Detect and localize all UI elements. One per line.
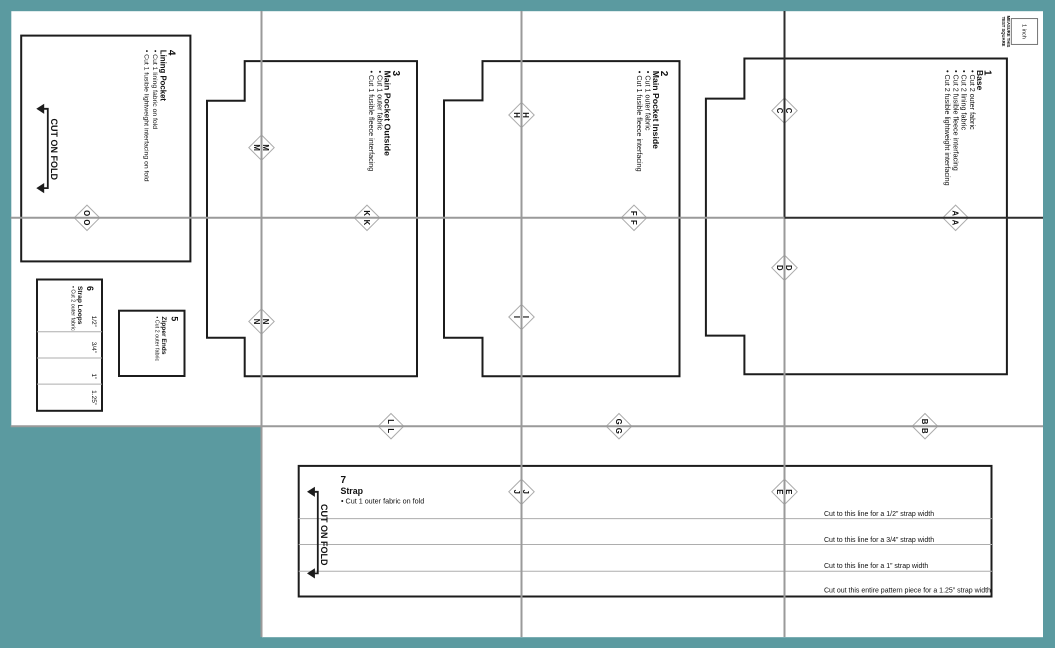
svg-text:• Cut 1 fusible lightweight in: • Cut 1 fusible lightweight interfacing … — [143, 50, 150, 182]
piece 4 cut-on-fold bracket — [44, 109, 48, 188]
diamond letters L — [386, 419, 395, 424]
svg-text:7: 7 — [341, 475, 347, 486]
svg-text:3/4”: 3/4” — [90, 342, 97, 353]
svg-text:O: O — [82, 210, 91, 216]
piece 6 text — [69, 286, 95, 331]
svg-text:L: L — [386, 428, 395, 433]
svg-text:C: C — [775, 108, 784, 114]
svg-text:G: G — [614, 428, 623, 434]
white sheet right — [262, 11, 1043, 637]
svg-text:A: A — [951, 220, 960, 226]
diamond letters B — [920, 419, 929, 425]
diamond letters G — [614, 419, 623, 425]
svg-text:TEST SQUARE: TEST SQUARE — [1001, 17, 1006, 47]
piece 2 text — [635, 71, 669, 172]
diamond letters C — [775, 108, 784, 114]
piece 3 text — [367, 71, 401, 172]
diamond O — [74, 205, 99, 230]
svg-text:1 inch: 1 inch — [1021, 24, 1027, 39]
svg-text:F: F — [629, 220, 638, 225]
svg-text:CUT ON FOLD: CUT ON FOLD — [319, 504, 329, 566]
svg-text:• Cut 2 fusible lightweight in: • Cut 2 fusible lightweight interfacing — [943, 70, 952, 186]
svg-text:• Cut 2 outer fabric: • Cut 2 outer fabric — [69, 286, 75, 331]
svg-text:J: J — [521, 490, 530, 494]
page boundary vertical line 2 — [521, 11, 523, 637]
page boundary vertical line 3 gray part — [784, 218, 786, 637]
svg-text:• Cut 1 outer fabric on fold: • Cut 1 outer fabric on fold — [341, 497, 424, 506]
piece 4 cut-on-fold label — [49, 119, 59, 181]
piece 7 cut-on-fold label — [319, 504, 329, 566]
svg-text:Zipper Ends: Zipper Ends — [160, 316, 167, 354]
diamond F — [621, 205, 646, 230]
piece 2 Main Pocket Inside outline — [444, 61, 680, 376]
diamond D — [772, 255, 797, 280]
svg-text:Strap: Strap — [341, 486, 364, 496]
piece 7 Strap outline — [299, 466, 992, 597]
piece 1 text — [943, 70, 992, 186]
diamond letters F — [629, 211, 638, 216]
diamond letters D — [775, 265, 784, 271]
diamond J — [509, 479, 534, 504]
svg-text:J: J — [512, 490, 521, 494]
svg-text:F: F — [629, 211, 638, 216]
piece 6 width labels — [90, 316, 97, 327]
svg-text:M: M — [261, 144, 270, 151]
svg-text:M: M — [252, 144, 261, 151]
svg-text:6: 6 — [85, 286, 95, 291]
piece 7 internal lines — [299, 518, 992, 520]
svg-text:Strap Loops: Strap Loops — [76, 286, 83, 325]
svg-text:L: L — [386, 419, 395, 424]
diamond letters O — [82, 210, 91, 216]
diamond E — [772, 479, 797, 504]
svg-text:Cut to this line for a 1” stra: Cut to this line for a 1” strap width — [824, 563, 928, 570]
diamond I — [509, 304, 534, 329]
piece 6 internal lines — [37, 331, 102, 333]
diamond A — [943, 205, 968, 230]
svg-text:D: D — [775, 265, 784, 271]
diamond letters K — [362, 210, 371, 216]
piece 3 Main Pocket Outside outline — [207, 61, 417, 376]
svg-text:1.25”: 1.25” — [90, 390, 97, 405]
diamond M — [249, 135, 274, 160]
svg-text:• Cut 2 outer fabric: • Cut 2 outer fabric — [154, 316, 160, 361]
diamond letters H — [512, 112, 521, 118]
diamond C — [772, 98, 797, 123]
svg-text:CUT ON FOLD: CUT ON FOLD — [49, 119, 59, 181]
svg-text:Cut to this line for a 1/2” st: Cut to this line for a 1/2” strap width — [824, 511, 934, 518]
svg-text:H: H — [521, 112, 530, 118]
svg-text:A: A — [951, 210, 960, 216]
svg-text:• Cut 1 lining fabric on fold: • Cut 1 lining fabric on fold — [151, 50, 158, 129]
svg-text:E: E — [784, 489, 793, 494]
svg-text:N: N — [261, 319, 270, 325]
piece 6 Strap Loops outline — [37, 280, 102, 411]
page boundary horizontal line 1 dark part — [785, 217, 1044, 219]
svg-text:Cut out this entire pattern pi: Cut out this entire pattern piece for a … — [824, 587, 991, 594]
svg-text:N: N — [252, 319, 261, 325]
diamond letters E — [775, 489, 784, 494]
test square — [1011, 19, 1037, 45]
svg-text:D: D — [784, 265, 793, 271]
svg-text:B: B — [920, 419, 929, 425]
piece 4 text — [143, 50, 177, 182]
svg-text:C: C — [784, 108, 793, 114]
diamond letters A — [951, 210, 960, 216]
diamond K — [354, 205, 379, 230]
svg-text:H: H — [512, 112, 521, 118]
diamond N — [249, 309, 274, 334]
diamond H — [509, 102, 534, 127]
diamond G — [606, 414, 631, 439]
svg-text:K: K — [362, 210, 371, 216]
piece 5 text — [154, 316, 180, 361]
piece 7 cut-on-fold bracket — [314, 492, 318, 574]
svg-text:K: K — [362, 220, 371, 226]
svg-text:• Cut 1 fusible fleece interfa: • Cut 1 fusible fleece interfacing — [635, 71, 644, 172]
diamond letters N — [252, 319, 261, 325]
svg-text:I: I — [521, 316, 530, 318]
svg-text:1/2”: 1/2” — [90, 316, 97, 327]
diamond B — [912, 414, 937, 439]
svg-text:G: G — [614, 419, 623, 425]
svg-text:1”: 1” — [90, 373, 97, 379]
page boundary vertical line 3 dark part — [784, 11, 786, 218]
svg-text:I: I — [512, 316, 521, 318]
svg-text:O: O — [82, 219, 91, 225]
page boundary horizontal line 2 — [11, 425, 1043, 427]
diamond letters I — [512, 316, 521, 318]
piece 4 Lining Pocket outline — [21, 36, 190, 262]
diamond L — [378, 414, 403, 439]
svg-text:5: 5 — [170, 316, 180, 321]
piece 5 Zipper Ends outline — [119, 311, 185, 376]
svg-text:• Cut 1 fusible fleece interfa: • Cut 1 fusible fleece interfacing — [367, 71, 376, 172]
svg-text:B: B — [920, 428, 929, 434]
svg-text:Lining Pocket: Lining Pocket — [158, 50, 167, 102]
page boundary vertical line 1 — [261, 11, 263, 637]
diamond letters J — [512, 490, 521, 494]
diamond letters M — [252, 144, 261, 151]
white sheet left — [11, 11, 262, 427]
svg-text:Cut to this line for a 3/4” st: Cut to this line for a 3/4” strap width — [824, 537, 934, 544]
svg-text:E: E — [775, 489, 784, 494]
page boundary horizontal line 1 gray part — [11, 217, 785, 219]
piece 1 Base outline — [706, 59, 1007, 375]
